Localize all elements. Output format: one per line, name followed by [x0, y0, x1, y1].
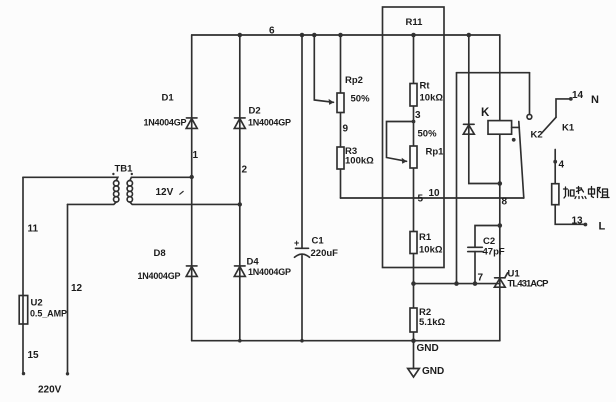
terminal 13 dot [584, 223, 588, 227]
svg-text:D8: D8 [154, 248, 166, 259]
junction on rail at D2 [238, 33, 243, 38]
svg-text:5.1kΩ: 5.1kΩ [419, 317, 445, 328]
svg-text:10kΩ: 10kΩ [419, 245, 443, 256]
svg-text:TL431ACP: TL431ACP [508, 279, 550, 290]
terminal 14 dot [569, 97, 573, 101]
Rp1 wiper link from node 3 [387, 122, 414, 162]
svg-text:R11: R11 [406, 17, 424, 28]
flyback diode across relay coil [463, 35, 502, 186]
svg-text:220uF: 220uF [311, 248, 339, 259]
heating resistor 加热电阻 [552, 184, 606, 233]
svg-text:100kΩ: 100kΩ [345, 156, 374, 167]
primary top lead [23, 177, 118, 180]
capacitor C1 [294, 35, 338, 341]
svg-text:10: 10 [429, 188, 441, 199]
junction bottom rail at R2 [411, 338, 416, 343]
svg-text:50%: 50% [418, 129, 438, 140]
svg-text:9: 9 [343, 124, 349, 135]
svg-text:D1: D1 [162, 93, 175, 104]
junction on rail at C1 [300, 33, 305, 38]
svg-text:GND: GND [417, 343, 439, 354]
junction on rail at Rp2 wiper feed [312, 33, 317, 38]
svg-text:4: 4 [559, 160, 565, 171]
wire D1-D8 column [191, 35, 193, 341]
primary bottom lead [68, 202, 117, 204]
svg-text:1N4004GP: 1N4004GP [248, 118, 291, 128]
svg-text:D2: D2 [249, 106, 261, 117]
wire bottom rail [192, 340, 500, 342]
svg-text:R1: R1 [419, 232, 432, 243]
resistor R1 [410, 232, 443, 256]
svg-text:10kΩ: 10kΩ [420, 93, 444, 104]
svg-text:K2: K2 [531, 130, 543, 141]
svg-text:0.5_AMP: 0.5_AMP [30, 309, 67, 319]
svg-text:C2: C2 [483, 236, 495, 247]
junction on rail at Rt branch [411, 33, 416, 38]
svg-text:+: + [294, 238, 299, 248]
diode D8 [138, 248, 198, 281]
svg-text:TB1: TB1 [115, 164, 134, 175]
svg-text:3: 3 [415, 110, 421, 121]
svg-text:1N4004GP: 1N4004GP [138, 271, 181, 281]
K1 switch arm [541, 117, 556, 133]
potentiometer Rp1 [387, 120, 445, 168]
phase dot secondary [131, 173, 133, 175]
wire terminal 14 to K1 [556, 99, 571, 117]
node 3 junction dot [412, 120, 416, 124]
relay coil K column [499, 35, 501, 341]
K2 contact dot [512, 138, 516, 142]
ground symbol [408, 369, 420, 378]
svg-text:GND: GND [422, 366, 444, 377]
junction on rail at Rp2 branch [338, 33, 343, 38]
diode D2 [234, 106, 291, 129]
resistor R2 [410, 307, 445, 332]
contact frame top [457, 72, 530, 74]
K2 fixed contact circle [527, 114, 532, 119]
svg-text:C1: C1 [312, 236, 325, 247]
wire K1 to heater [554, 150, 556, 184]
contact K2 [512, 114, 543, 198]
shunt regulator U1 TL431 [494, 269, 549, 290]
Rp2 wiper feed from rail [314, 35, 333, 102]
svg-text:5: 5 [418, 194, 424, 205]
svg-text:K: K [481, 107, 490, 119]
phase dot primary [112, 173, 114, 175]
svg-text:Rt: Rt [420, 81, 431, 92]
thermistor Rt [410, 35, 443, 341]
svg-text:14: 14 [572, 90, 584, 101]
relay coil K body [481, 107, 519, 134]
wire left contact feed [456, 73, 458, 284]
potentiometer Rp2 [314, 35, 370, 198]
svg-text:13: 13 [572, 216, 584, 227]
svg-text:1: 1 [193, 150, 199, 161]
wire mains right (line 12) [67, 204, 69, 373]
heater label (CJK strokes) [564, 187, 610, 199]
wire heater to terminal 13 [555, 205, 585, 225]
secondary bottom lead to node 2 [130, 202, 240, 204]
svg-text:1N4004GP: 1N4004GP [144, 118, 187, 128]
transformer TB1 [23, 164, 240, 205]
wire mains left (line 11) [22, 177, 24, 373]
primary winding [114, 181, 119, 186]
stray mark [180, 191, 183, 194]
svg-text:N: N [591, 94, 599, 106]
svg-text:K1: K1 [562, 123, 575, 134]
secondary top lead to node 1 [130, 177, 192, 180]
diode D4 [234, 257, 291, 278]
K2 switch arm [519, 122, 524, 199]
coil right stub [512, 126, 520, 128]
svg-text:L: L [599, 220, 606, 232]
node 1 junction [190, 175, 194, 179]
svg-text:Rp2: Rp2 [345, 75, 363, 86]
node 7 row [414, 283, 500, 285]
resistor network box R11 [383, 7, 445, 268]
node 2 junction [238, 202, 242, 206]
svg-text:8: 8 [502, 197, 508, 208]
svg-text:U2: U2 [31, 298, 43, 309]
svg-text:15: 15 [28, 350, 40, 361]
secondary winding [127, 181, 132, 186]
svg-text:Rp1: Rp1 [426, 147, 445, 158]
wire to K2 fixed contact [529, 73, 531, 115]
svg-text:50%: 50% [351, 94, 371, 105]
svg-text:12V: 12V [156, 187, 174, 198]
junction bottom rail at C1 [300, 339, 304, 343]
wire node 5-10-8 row [341, 197, 524, 199]
svg-text:2: 2 [242, 165, 248, 176]
svg-text:7: 7 [478, 273, 484, 284]
junction bottom rail at D4 [238, 339, 242, 343]
GND stub below bottom rail [413, 341, 415, 369]
junction on rail at flyback diode [467, 33, 472, 38]
svg-text:6: 6 [269, 26, 275, 37]
svg-text:1N4004GP: 1N4004GP [248, 267, 291, 277]
resistor R3 [337, 146, 374, 169]
node 4 junction [553, 160, 557, 164]
capacitor C2 [468, 223, 505, 283]
svg-text:11: 11 [28, 224, 39, 235]
contact K1 with N terminal [541, 90, 599, 184]
wire top positive rail node 6 [192, 34, 500, 36]
wire D2-D4 column [239, 35, 241, 341]
svg-text:D4: D4 [247, 257, 260, 268]
svg-text:220V: 220V [38, 385, 62, 396]
fuse U2 [19, 296, 67, 325]
svg-text:47pF: 47pF [483, 247, 505, 258]
svg-text:12: 12 [71, 283, 83, 294]
diode D1 [144, 93, 198, 129]
